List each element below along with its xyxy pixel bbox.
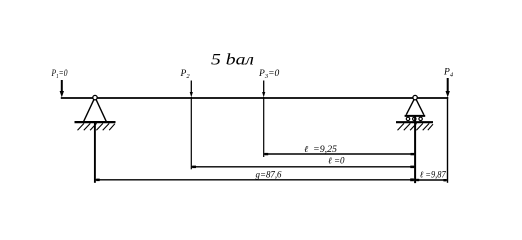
force P1 arrow	[60, 80, 64, 97]
dimension line g=87,6 (left support to right support)	[95, 178, 415, 181]
force P3 arrow	[262, 81, 265, 98]
pin support (left) : triangle legs	[84, 100, 107, 122]
extension line below P3	[263, 97, 265, 157]
beam	[61, 97, 448, 99]
svg-text:P1=0: P1=0	[51, 69, 68, 80]
extension line below right support	[414, 116, 416, 183]
roller support (right) : base plate	[405, 115, 426, 117]
dimension line l=9,87 (right support to P4)	[415, 179, 448, 182]
dimension line l=0 (P2 to right support)	[191, 166, 415, 169]
pin support (left) : hinge circle	[93, 95, 97, 99]
force P4 arrow	[446, 78, 450, 97]
roller support (right) : hatching	[398, 123, 434, 130]
pin support (left) : hatching	[78, 123, 115, 130]
svg-text:ℓ =9,87: ℓ =9,87	[420, 170, 446, 180]
roller support (right) : ground line	[396, 121, 433, 123]
svg-text:g=87,6: g=87,6	[256, 170, 282, 180]
dimension line l=9,25 (P3 to right support)	[264, 153, 415, 155]
svg-text:P3=0: P3=0	[258, 69, 279, 80]
extension line below left support	[94, 123, 96, 183]
extension line below P4	[447, 97, 449, 183]
pin support (left) : ground line	[75, 121, 116, 123]
svg-text:ℓ =9,25: ℓ =9,25	[304, 144, 338, 154]
roller support (right) : rollers	[406, 117, 422, 120]
roller support (right) : hinge circle	[413, 95, 417, 99]
force P2 arrow	[190, 81, 193, 98]
extension line below P2	[190, 97, 192, 169]
roller support (right) : triangle legs	[406, 100, 424, 115]
svg-text:ℓ =0: ℓ =0	[328, 156, 345, 166]
svg-text:5 bал: 5 bал	[211, 52, 254, 69]
